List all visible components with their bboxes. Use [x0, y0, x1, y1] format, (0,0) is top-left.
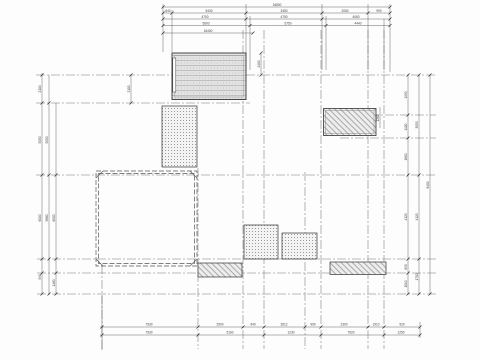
svg-text:1250: 1250 [397, 331, 404, 335]
svg-text:5750: 5750 [284, 22, 291, 26]
axis 5 vertical [263, 30, 265, 349]
svg-text:1480: 1480 [52, 279, 56, 286]
svg-text:840: 840 [165, 9, 171, 13]
axis Б horizontal [37, 258, 437, 260]
interior dimension above balcony [379, 107, 381, 128]
svg-text:1950: 1950 [404, 91, 408, 98]
svg-text:16400: 16400 [204, 29, 213, 33]
svg-text:1010: 1010 [404, 280, 408, 287]
top extension lines [162, 4, 164, 52]
svg-text:6000: 6000 [52, 214, 56, 221]
svg-text:7530: 7530 [145, 331, 152, 335]
svg-text:1910: 1910 [372, 323, 379, 327]
svg-text:7520: 7520 [347, 331, 354, 335]
top dimension tier 4 [163, 25, 390, 27]
axis 1 vertical [101, 265, 103, 349]
bathroom 6 tile floor [244, 225, 278, 259]
svg-text:4120: 4120 [404, 213, 408, 220]
svg-text:2050: 2050 [341, 9, 348, 13]
axis Д horizontal [340, 114, 436, 116]
bathroom 9 tile floor [282, 233, 317, 259]
axis В horizontal [36, 174, 435, 176]
top dimension tier 3 [163, 18, 390, 20]
porch 15 hatch strip [330, 262, 386, 275]
bottom dimension tier 1 [100, 326, 420, 328]
svg-text:5160: 5160 [226, 331, 233, 335]
top dimension tier 1 [163, 6, 390, 8]
bathroom 3 tile floor [162, 106, 197, 167]
axis 8 vertical [367, 30, 369, 349]
top tick marks [162, 6, 392, 35]
svg-text:2100: 2100 [127, 85, 131, 92]
svg-text:690: 690 [404, 264, 408, 270]
axis К horizontal [36, 74, 436, 76]
pergola corner braces [96, 171, 197, 266]
terrace 14 left edge white gap [173, 58, 176, 92]
svg-text:5050: 5050 [38, 136, 42, 143]
svg-text:940: 940 [250, 323, 256, 327]
axis 9 vertical [383, 30, 385, 349]
axis Е horizontal [36, 102, 250, 104]
axis 3 vertical [197, 168, 199, 349]
svg-text:8400: 8400 [426, 181, 430, 188]
svg-text:4060: 4060 [352, 15, 359, 19]
svg-text:3050: 3050 [415, 121, 419, 128]
svg-text:16800: 16800 [273, 3, 282, 7]
terrace 14 deck fill [172, 53, 246, 100]
svg-text:990: 990 [310, 323, 316, 327]
axis Г horizontal [340, 137, 436, 139]
bottom dimension texts [145, 323, 404, 335]
svg-text:5600: 5600 [202, 22, 209, 26]
svg-text:4700: 4700 [201, 15, 208, 19]
axis А horizontal [37, 272, 437, 274]
svg-text:1700: 1700 [415, 273, 419, 280]
svg-text:4120: 4120 [415, 213, 419, 220]
axis А' horizontal [37, 293, 436, 295]
axis 6 vertical [304, 172, 306, 349]
left dimension columns [41, 73, 43, 294]
svg-text:1800: 1800 [404, 153, 408, 160]
balcony inner line [326, 111, 375, 134]
svg-text:4750: 4750 [280, 15, 287, 19]
bottom dimension tier 2 [100, 334, 420, 336]
balcony hatch area [324, 109, 377, 136]
bottom tick marks [101, 326, 422, 337]
interior dimension 2100 between К and Е [130, 75, 132, 103]
top dimension tier 2 [163, 12, 390, 14]
svg-text:2612: 2612 [280, 323, 287, 327]
svg-text:2300: 2300 [340, 323, 347, 327]
svg-text:3450: 3450 [280, 9, 287, 13]
svg-text:7530: 7530 [145, 323, 152, 327]
svg-text:5430: 5430 [205, 9, 212, 13]
terrace dashed pergola rectangle [96, 171, 197, 266]
svg-text:1100: 1100 [404, 123, 408, 130]
porch 16 hatch strip [198, 263, 242, 277]
bottom extension stubs [101, 296, 103, 350]
top dimension texts [165, 3, 382, 33]
axis 6' vertical [320, 30, 322, 349]
svg-text:5880: 5880 [45, 214, 49, 221]
svg-text:6000: 6000 [38, 214, 42, 221]
svg-text:2400: 2400 [257, 60, 261, 67]
svg-text:920: 920 [399, 323, 405, 327]
svg-text:990: 990 [38, 274, 42, 280]
top dimension tier 5 [163, 32, 253, 34]
svg-text:990: 990 [376, 9, 382, 13]
svg-text:4440: 4440 [354, 22, 361, 26]
svg-text:5050: 5050 [45, 136, 49, 143]
svg-text:1262: 1262 [376, 114, 380, 121]
interior dimension right of terrace [260, 53, 262, 75]
svg-text:2500: 2500 [216, 323, 223, 327]
svg-text:1230: 1230 [287, 331, 294, 335]
right dimension columns [407, 75, 409, 294]
svg-text:2100: 2100 [38, 85, 42, 92]
axis 5' vertical [242, 30, 244, 349]
